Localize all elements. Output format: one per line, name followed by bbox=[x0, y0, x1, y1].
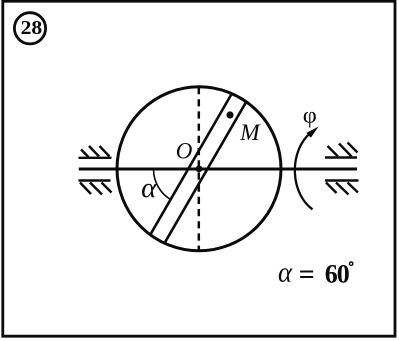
svg-text:=: = bbox=[299, 260, 315, 291]
svg-text:φ: φ bbox=[303, 102, 317, 127]
left support bottom line bbox=[79, 179, 111, 181]
phi arrowhead bbox=[306, 127, 318, 138]
center point O dot bbox=[196, 166, 203, 173]
left support top line bbox=[79, 157, 112, 159]
disk circle bbox=[117, 87, 281, 251]
degree symbol bbox=[350, 262, 353, 265]
point M dot bbox=[226, 111, 233, 118]
vertical dashed diameter bbox=[198, 87, 201, 251]
svg-text:28: 28 bbox=[21, 18, 43, 39]
svg-text:α: α bbox=[141, 172, 157, 204]
horizontal rotation axis bbox=[79, 168, 357, 171]
right support bottom hatching bbox=[326, 183, 358, 195]
svg-text:60: 60 bbox=[325, 260, 350, 289]
svg-text:M: M bbox=[239, 120, 261, 146]
slot right edge line bbox=[165, 102, 246, 243]
right support bottom line bbox=[325, 179, 359, 181]
phi rotation arc bbox=[295, 134, 313, 210]
right support top hatching bbox=[328, 143, 358, 157]
left support bottom hatching bbox=[80, 183, 112, 195]
right support top line bbox=[325, 156, 357, 158]
left support top hatching bbox=[81, 146, 110, 157]
slot left edge line bbox=[151, 94, 232, 234]
problem number badge circle bbox=[14, 13, 45, 44]
angle alpha arc bbox=[154, 170, 171, 200]
svg-text:α: α bbox=[278, 256, 293, 288]
svg-text:O: O bbox=[176, 139, 193, 164]
